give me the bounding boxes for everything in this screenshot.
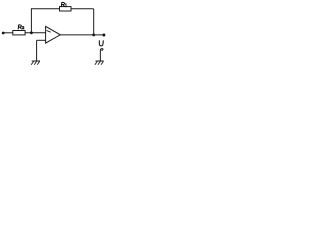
node output terminal — [102, 34, 105, 37]
wire feedback right vertical — [93, 9, 95, 35]
label R1 value — [61, 2, 66, 7]
node junction at output — [92, 34, 95, 37]
wire output — [60, 34, 104, 36]
op-amp U1 triangle — [46, 26, 61, 43]
ground right earth symbol — [95, 61, 104, 65]
node junction at inverting input — [30, 31, 33, 34]
wire non-inverting input vertical to ground — [36, 40, 38, 61]
voltage arrow head hook — [100, 49, 103, 51]
resistor R2 body — [13, 31, 25, 35]
wire non-inverting input horizontal — [37, 39, 46, 41]
wire voltage arrow shaft — [99, 50, 101, 61]
wire R2 to inverting node — [25, 32, 46, 34]
wire input terminal to R2 — [3, 32, 13, 34]
wire feedback top right horizontal — [71, 8, 94, 10]
wire feedback top left horizontal — [31, 8, 60, 10]
op-amp U1 inverting input mark — [47, 30, 51, 32]
ground left earth symbol — [31, 61, 40, 65]
wire feedback left vertical — [30, 9, 32, 33]
resistor R1 body — [60, 7, 72, 11]
label R2 value — [18, 25, 24, 29]
node input terminal — [2, 32, 5, 35]
label U output voltage — [99, 40, 103, 46]
